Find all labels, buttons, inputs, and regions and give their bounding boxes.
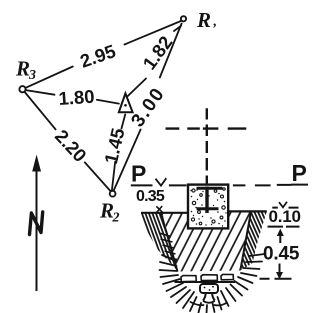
svg-text:P: P [292,160,307,186]
svg-text:0.45: 0.45 [263,244,300,265]
svg-text:R: R [196,8,211,32]
svg-text:2.95: 2.95 [77,40,118,72]
svg-text:,: , [213,15,218,30]
svg-text:1.45: 1.45 [100,126,129,166]
svg-text:0.35: 0.35 [136,188,165,205]
svg-text:3: 3 [28,68,36,83]
svg-text:0.10: 0.10 [269,207,301,226]
svg-text:1.80: 1.80 [58,86,95,109]
svg-text:P: P [131,161,146,187]
svg-text:R: R [15,57,30,81]
svg-text:2: 2 [112,211,120,226]
svg-text:2.20: 2.20 [51,125,91,166]
